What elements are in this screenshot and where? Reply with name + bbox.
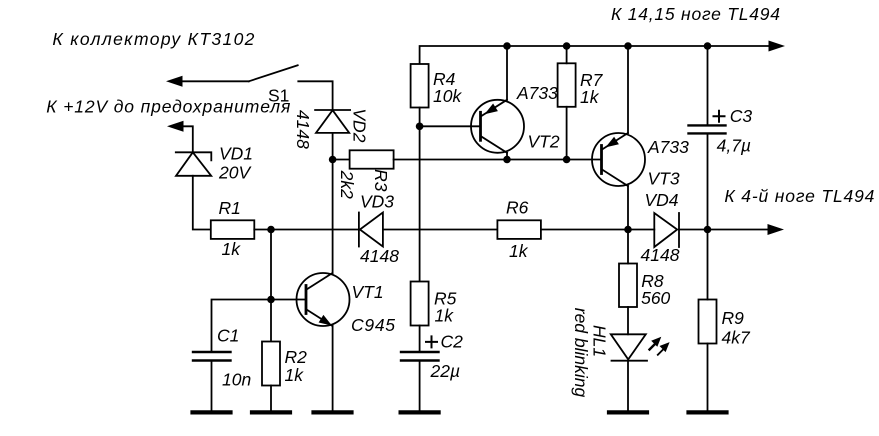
svg-text:4148: 4148 (293, 110, 313, 149)
node: top rail right arrow (769, 41, 786, 52)
svg-text:2k2: 2k2 (337, 170, 357, 199)
svg-text:HL1: HL1 (590, 325, 610, 357)
svg-text:VT1: VT1 (352, 282, 384, 302)
wire: R2 to ground (270, 386, 272, 411)
svg-text:VD2: VD2 (350, 108, 370, 142)
resistor R1 (211, 220, 255, 239)
resistor R3 value 2k2 (337, 170, 357, 199)
diode VD4 triangle (654, 213, 677, 247)
wire: R9 to ground (707, 344, 709, 411)
ground C1 (193, 410, 231, 414)
capacitor C2 plus sign (426, 336, 437, 347)
wire: C2 to ground (419, 361, 421, 411)
svg-text:R2: R2 (285, 347, 308, 367)
diode VD2 cathode bar (315, 109, 350, 111)
wire: VT3 emitter to top rail (627, 46, 629, 133)
wire: VT2 collector to rail (506, 153, 508, 160)
diode VD1 zener cathode bar (176, 152, 212, 160)
wire: VD4 to right arrow (679, 229, 768, 231)
wire: S1 left lead (182, 80, 249, 82)
diode VD1 triangle (176, 152, 211, 176)
transistor VT1 circle (297, 273, 350, 326)
wire: VT3 collector to middle rail (627, 186, 629, 230)
svg-text:R9: R9 (722, 308, 745, 328)
transistor VT3 emitter diagonal (602, 133, 628, 150)
resistor R9 (699, 300, 717, 344)
capacitor C3 top lead (707, 46, 709, 125)
wire: VD2 anode down to junction (332, 133, 334, 160)
node: arrow to KT3102 collector (166, 76, 183, 87)
svg-text:К коллектору КТ3102: К коллектору КТ3102 (52, 29, 254, 49)
svg-text:1k: 1k (580, 87, 600, 107)
svg-text:1k: 1k (285, 365, 305, 385)
wire: LED to ground (627, 361, 629, 411)
transistor VT2 collector diagonal (481, 136, 507, 153)
wire: R4 bottom to VT2 base junction, down to R5 (419, 108, 421, 282)
svg-text:1k: 1k (509, 241, 529, 261)
node: arrow to +12V fuse (167, 121, 184, 132)
capacitor C1 plate top (193, 351, 231, 353)
capacitor C2 plate bottom (401, 359, 439, 361)
svg-text:S1: S1 (268, 86, 289, 106)
junction dot C3/R9 middle rail (704, 226, 712, 234)
wire: R6 right to VD4 (541, 229, 654, 231)
diode VD4 cathode bar (678, 213, 680, 247)
resistor R5 (411, 282, 429, 326)
svg-text:4148: 4148 (360, 246, 399, 266)
resistor R3 label (371, 169, 391, 192)
transistor VT2 circle (471, 100, 524, 153)
wire: R5 bottom to C2 (419, 326, 421, 353)
svg-text:К 14,15 ноге TL494: К 14,15 ноге TL494 (611, 4, 780, 24)
transistor VT3 collector diagonal (602, 170, 628, 187)
wire: VT1 base column (270, 230, 272, 342)
wire: arrow to VD1 top (183, 126, 193, 152)
svg-text:R3: R3 (371, 169, 391, 192)
junction dot VT3 emitter / top rail (624, 42, 632, 50)
svg-text:К +12V до предохранителя: К +12V до предохранителя (46, 97, 290, 117)
ground VT1 emitter (314, 410, 352, 414)
svg-text:red blinking: red blinking (571, 308, 591, 398)
junction dot R7 / top rail (563, 42, 571, 50)
resistor R3 (350, 150, 394, 168)
capacitor C3 plus sign (714, 111, 725, 122)
junction dot VD2/R3/VT1 collector (329, 156, 337, 164)
LED HL1 emission arrow 1 (650, 344, 656, 350)
junction dot R4/VT2 base (416, 123, 424, 131)
diode VD3 triangle (360, 213, 383, 247)
wire: VT1 collector up to VD2/R3 junction (332, 160, 334, 274)
diode VD2 triangle (316, 110, 349, 133)
svg-text:A733: A733 (516, 83, 558, 103)
wire: R3 right to VT3 base (394, 159, 602, 161)
transistor VT1 base bar (305, 286, 308, 314)
wire: VT2 emitter to top rail (506, 46, 508, 100)
resistor R2 (262, 342, 280, 386)
diode VD3 cathode bar (358, 213, 360, 247)
transistor VT2 base bar (479, 112, 482, 140)
wire: R8 bottom to LED (627, 307, 629, 334)
wire: S1 right stub to VD2 (298, 81, 332, 110)
capacitor C3 plate top (689, 124, 726, 126)
wire: top rail К 14,15 (420, 46, 769, 64)
svg-text:1k: 1k (435, 306, 455, 326)
wire: VD1 anode down to R1 (193, 176, 211, 230)
svg-text:A733: A733 (647, 137, 689, 157)
svg-text:VT3: VT3 (648, 169, 680, 189)
svg-text:VD4: VD4 (645, 190, 679, 210)
transistor VT2 emitter diagonal (481, 100, 507, 117)
transistor VT3 circle (592, 133, 645, 186)
transistor VT1 NPN arrow (319, 315, 332, 326)
wire: R3 left lead (333, 159, 350, 161)
svg-text:4k7: 4k7 (722, 328, 751, 348)
capacitor C2 plate top (401, 351, 439, 353)
svg-text:VT2: VT2 (528, 132, 560, 152)
transistor VT3 PNP arrow (606, 137, 619, 148)
resistor R7 (558, 63, 576, 107)
switch S1 lever (249, 65, 298, 81)
svg-text:22µ: 22µ (430, 361, 461, 381)
wire: junction to C1 (212, 300, 272, 353)
ground R9 (689, 410, 727, 414)
svg-text:R1: R1 (219, 198, 241, 218)
transistor VT2 PNP arrow (485, 104, 498, 115)
resistor R8 (619, 264, 637, 308)
wire: C3 bottom to middle rail (707, 133, 709, 229)
wire: VD3 anode to R6 (383, 229, 498, 231)
junction dot VT3 collector / R8 (624, 226, 632, 234)
svg-text:VD3: VD3 (360, 192, 394, 212)
svg-text:560: 560 (641, 288, 670, 308)
capacitor C1 plate bottom (193, 359, 231, 361)
svg-text:VD1: VD1 (219, 144, 253, 164)
capacitor C3 plate bottom (689, 132, 726, 134)
svg-text:R6: R6 (506, 198, 529, 218)
LED HL1 emission arrow 2 (658, 349, 664, 355)
wire: junction to VT1 base (271, 299, 306, 301)
wire: R1 right to VD3 (254, 229, 359, 231)
svg-text:C945: C945 (351, 315, 395, 335)
junction dot VT1 base/C1/R2 (267, 296, 275, 304)
svg-text:К 4-й ноге TL494: К 4-й ноге TL494 (724, 186, 874, 206)
wire: VT1 emitter to ground (332, 326, 334, 410)
wire: R7 top lead (566, 46, 568, 63)
svg-text:4,7µ: 4,7µ (717, 136, 751, 156)
resistor R6 (497, 220, 541, 239)
svg-text:4148: 4148 (641, 245, 680, 265)
svg-text:10n: 10n (222, 370, 251, 390)
svg-text:C2: C2 (441, 332, 464, 352)
resistor R4 (411, 64, 429, 108)
ground C2 (401, 410, 439, 414)
svg-text:10k: 10k (433, 86, 462, 106)
junction dot VT2 emitter / top rail (503, 42, 511, 50)
junction dot R7 / rail (563, 156, 571, 164)
diode VD2 value 4148 (293, 110, 313, 149)
svg-text:C1: C1 (217, 326, 239, 346)
ground HL1 (609, 410, 647, 414)
wire: R9 top lead (707, 230, 709, 300)
wire: C1 to ground (211, 361, 213, 411)
wire: junction to VT2 base (420, 125, 481, 127)
node: middle rail right arrow (768, 224, 785, 235)
LED HL1 note red blinking (571, 308, 591, 398)
transistor VT3 base bar (600, 146, 603, 174)
junction dot C3 / top rail (704, 42, 712, 50)
LED HL1 triangle (611, 334, 646, 359)
wire: R8 top lead (627, 230, 629, 264)
transistor VT1 collector diagonal (307, 273, 333, 290)
wire: R7 bottom lead (566, 107, 568, 160)
svg-text:1k: 1k (222, 239, 242, 259)
LED HL1 designator (590, 325, 610, 357)
svg-text:C3: C3 (730, 106, 753, 126)
ground R2 (252, 410, 290, 414)
svg-text:20V: 20V (218, 163, 252, 183)
junction dot at R1/VT1 base (267, 226, 275, 234)
junction dot VT2 collector / rail (503, 156, 511, 164)
transistor VT1 emitter diagonal (307, 310, 333, 327)
diode VD2 label (350, 108, 370, 142)
LED HL1 cathode bar (612, 360, 648, 362)
